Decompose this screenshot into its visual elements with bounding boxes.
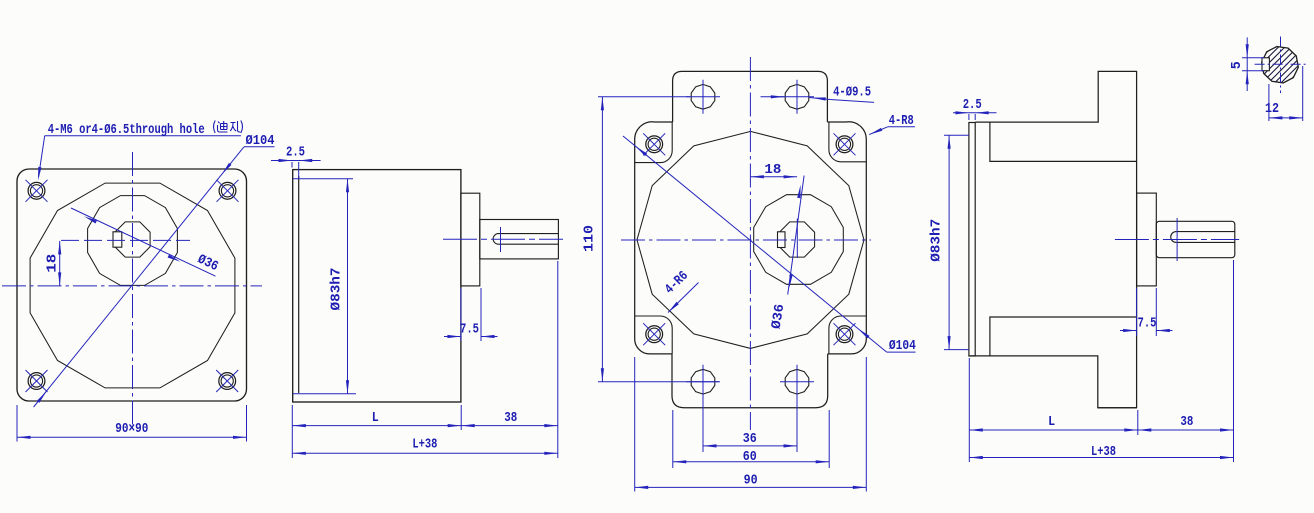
view3 tab hole bottom-right xyxy=(785,369,809,394)
view3 tab hole top-right xyxy=(785,84,809,109)
svg-text:60: 60 xyxy=(743,450,757,465)
svg-text:90: 90 xyxy=(744,474,758,489)
view2 boss xyxy=(461,193,480,286)
view1 corner hole bottom-right xyxy=(219,373,236,390)
view1 corner hole top-left xyxy=(28,182,45,199)
view4 body outline xyxy=(969,71,1136,407)
svg-text:38: 38 xyxy=(1180,415,1193,430)
view1 corner hole bottom-left xyxy=(28,373,45,390)
svg-text:90×90: 90×90 xyxy=(115,422,148,437)
view3 pad line bottom-right R6 xyxy=(829,316,866,354)
dim O104 view1 diagonal xyxy=(34,147,244,407)
dim 90 view3 xyxy=(634,357,636,492)
label 4-O9.5 view3 xyxy=(761,96,785,98)
view1 body circle O83 xyxy=(30,183,235,388)
view2 shaft centerline xyxy=(443,238,563,240)
view1 vertical centerline xyxy=(132,152,134,429)
view2 shaft flat lines xyxy=(498,233,559,235)
dim 60 view3 xyxy=(672,410,674,468)
view3 pad line top-right R6 xyxy=(829,122,866,162)
dim L+38 view4 xyxy=(969,457,1233,459)
svg-text:4-M6 or4-Ø6.5through hole: 4-M6 or4-Ø6.5through hole xyxy=(48,123,205,138)
view1 horizontal centerline xyxy=(2,285,262,287)
dim 38 view4 xyxy=(1233,260,1235,462)
view3 bottom tab xyxy=(672,354,828,408)
svg-text:L: L xyxy=(1048,415,1055,430)
view1 shaft circle xyxy=(115,222,150,257)
svg-text:Ø83h7: Ø83h7 xyxy=(930,219,945,262)
dim 7.5 view4 xyxy=(1136,288,1138,336)
view4 mid-body bottom edge xyxy=(990,317,1137,356)
svg-text:4-R8: 4-R8 xyxy=(889,114,914,129)
view3 shaft circle xyxy=(779,222,814,257)
view4 shaft flat lines xyxy=(1176,231,1235,233)
view4 boss xyxy=(1137,193,1157,286)
view3 shaft vertical tick xyxy=(796,219,798,259)
view3 corner hole top-left xyxy=(646,136,663,153)
view1 shaft centerline dashed xyxy=(61,239,190,241)
detail keyway xyxy=(1262,58,1269,71)
svg-text:L: L xyxy=(372,411,379,426)
svg-text:12: 12 xyxy=(1265,102,1279,117)
view3 shaft keyway xyxy=(778,232,786,248)
svg-text:Ø104: Ø104 xyxy=(246,134,275,149)
dim 5 detail xyxy=(1242,57,1264,59)
dim O83h7 view4 xyxy=(944,134,969,136)
view3 pad line top-left R6 xyxy=(635,122,673,163)
view3 right wing edge xyxy=(827,122,866,354)
view3 corner hole bottom-right xyxy=(836,326,853,343)
view3 left wing edge xyxy=(635,122,673,354)
view1 shaft keyway xyxy=(113,232,122,247)
view4 tab bottom edge xyxy=(1098,407,1137,409)
view2 flange plate edge xyxy=(298,176,300,393)
detail centerlines xyxy=(1280,37,1282,94)
view3 pad line bottom-left R6 xyxy=(635,316,673,354)
dim 110 view3 xyxy=(598,96,690,98)
view3 vertical centerline xyxy=(749,57,751,430)
dim 90x90 view1 xyxy=(16,405,18,442)
label 4-R6 view3 xyxy=(668,283,699,313)
dim 18 view1 xyxy=(59,241,61,286)
svg-text:L+38: L+38 xyxy=(412,438,437,453)
dim 2.5 view2 xyxy=(271,160,321,162)
dim L view2 xyxy=(291,405,293,458)
svg-text:110: 110 xyxy=(583,225,598,252)
dim O36 view3 xyxy=(788,176,804,295)
view3 boss circle O36 xyxy=(754,195,844,285)
view2 body rectangle xyxy=(293,170,461,402)
svg-text:2.5: 2.5 xyxy=(286,146,305,161)
dim L+38 view2 xyxy=(292,452,558,454)
view4 shaft xyxy=(1156,221,1235,257)
svg-text:7.5: 7.5 xyxy=(460,323,479,338)
dim L view4 xyxy=(968,358,970,462)
view4 flange plate xyxy=(969,123,975,357)
dim 7.5 view2 xyxy=(460,288,462,341)
view2 shaft xyxy=(480,220,559,259)
view4 shaft centerline xyxy=(1115,239,1239,241)
view3 tab hole bottom-left xyxy=(691,369,715,394)
view3 horizontal centerline xyxy=(621,239,871,241)
dim 18 view3 xyxy=(750,176,797,178)
svg-text:7.5: 7.5 xyxy=(1138,317,1157,332)
dim O83h7 view2 xyxy=(293,178,353,180)
view1 flange square 90x90 xyxy=(17,169,247,401)
dim 38 view2 xyxy=(557,261,559,458)
view3 top tab xyxy=(673,71,828,122)
svg-text:L+38: L+38 xyxy=(1091,445,1116,460)
view3 tab hole top-left xyxy=(691,84,715,109)
dim O104 view3 diagonal xyxy=(623,136,887,352)
dim O36 view1 xyxy=(71,208,216,276)
dim 2.5 view4 xyxy=(953,112,997,114)
dim 36 view3 xyxy=(702,398,704,452)
svg-text:18: 18 xyxy=(764,163,781,178)
view3 corner hole top-right xyxy=(836,136,853,153)
svg-text:5: 5 xyxy=(1230,61,1245,69)
svg-text:4-Ø9.5: 4-Ø9.5 xyxy=(833,86,871,101)
view3 body circle xyxy=(637,131,864,348)
svg-text:Ø104: Ø104 xyxy=(889,339,916,354)
svg-text:36: 36 xyxy=(743,432,757,447)
view1 boss circle O36 xyxy=(88,196,178,286)
svg-text:38: 38 xyxy=(504,411,517,426)
view4 mid-body top edge xyxy=(990,122,1137,161)
view1 corner hole top-right xyxy=(219,182,236,199)
view3 corner hole bottom-left xyxy=(646,326,663,343)
svg-text:2.5: 2.5 xyxy=(963,98,982,113)
dim 12 detail xyxy=(1268,84,1270,121)
label 4-R8 view3 xyxy=(869,127,888,135)
label 4-M6 leader xyxy=(45,135,241,137)
svg-text:Ø83h7: Ø83h7 xyxy=(330,268,345,311)
svg-text:18: 18 xyxy=(46,254,61,273)
